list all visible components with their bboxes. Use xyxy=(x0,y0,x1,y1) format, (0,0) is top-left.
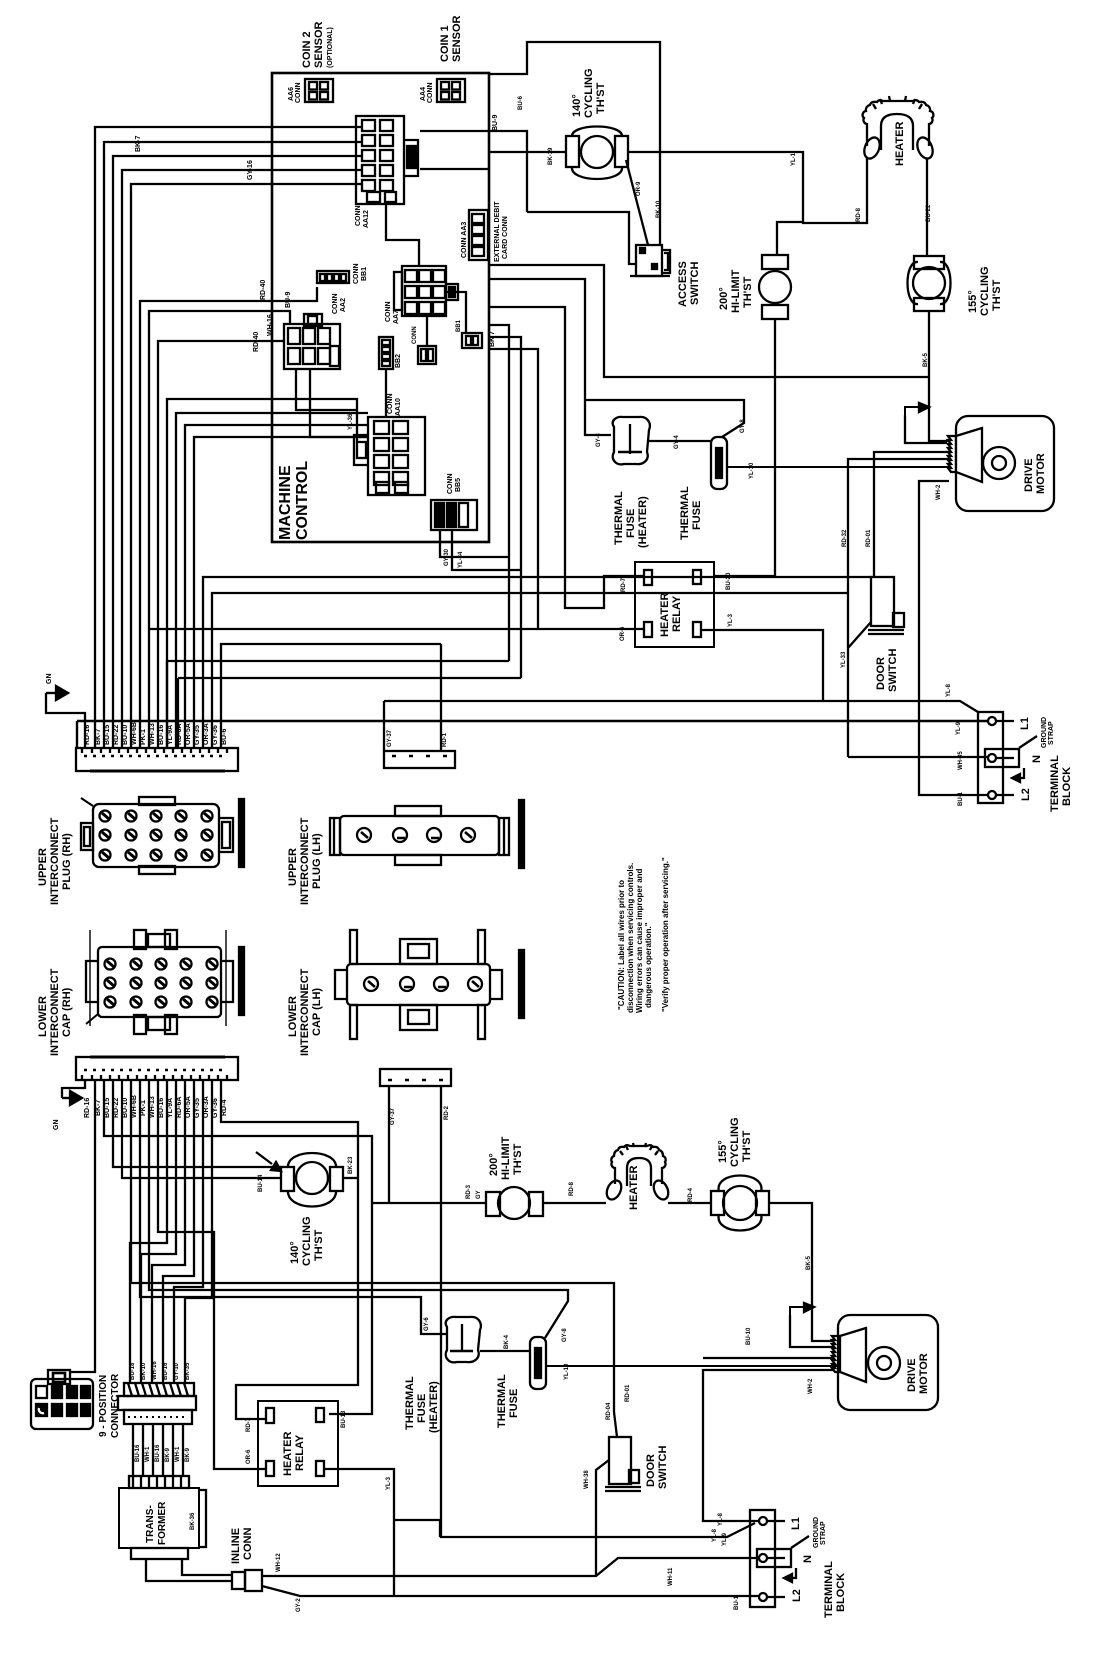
svg-text:THERMAL: THERMAL xyxy=(404,1376,416,1430)
svg-text:YL-8: YL-8 xyxy=(946,683,952,697)
wire staircase 6 xyxy=(185,1080,212,1383)
door switch (top) xyxy=(868,577,904,692)
svg-text:CONNECTOR: CONNECTOR xyxy=(110,1373,121,1438)
svg-text:BK 7: BK 7 xyxy=(489,331,496,347)
wire harness to CONN AA12 pin row 2 xyxy=(104,142,362,748)
svg-text:BB2: BB2 xyxy=(395,354,402,368)
svg-text:RD-32: RD-32 xyxy=(842,529,848,547)
wire harness to CONN AA10 pin 4 xyxy=(194,437,368,748)
svg-text:SWITCH: SWITCH xyxy=(657,1446,669,1489)
svg-text:CONN: CONN xyxy=(385,301,392,322)
svg-text:YL-34: YL-34 xyxy=(458,551,464,568)
svg-text:YL-33: YL-33 xyxy=(841,651,847,668)
machine control U1 box xyxy=(272,73,489,542)
svg-text:YL-3: YL-3 xyxy=(386,1476,392,1490)
svg-text:OR-6: OR-6 xyxy=(620,626,626,641)
wire to pill top diagonal GY-8 xyxy=(149,1080,568,1338)
lower interconnect cap (LH) xyxy=(287,930,524,1056)
wire AA7 flap to BB4 xyxy=(446,292,466,333)
svg-text:GY-16: GY-16 xyxy=(247,160,254,180)
svg-text:TRANS-: TRANS- xyxy=(145,1505,156,1543)
connector CONN AA6 xyxy=(288,79,333,103)
ground GN arrow + wire (bottom) xyxy=(53,1080,85,1130)
svg-text:YL-8: YL-8 xyxy=(712,1528,718,1542)
wire box exit to relay coil xyxy=(489,349,538,629)
svg-text:CAP (RH): CAP (RH) xyxy=(61,987,73,1037)
svg-text:DOOR: DOOR xyxy=(645,1454,657,1487)
BB5 exits xyxy=(440,530,521,570)
connector CONN AA2 xyxy=(284,293,347,369)
svg-text:RD-01: RD-01 xyxy=(625,1384,631,1402)
GY-8 wire pill top loop xyxy=(585,400,744,437)
svg-text:BK-23: BK-23 xyxy=(348,1156,354,1174)
svg-text:CYCLING: CYCLING xyxy=(729,1118,741,1168)
svg-text:WH-2: WH-2 xyxy=(936,484,942,500)
wire box exit to heater relay TL xyxy=(489,307,644,608)
svg-text:GROUND: GROUND xyxy=(813,1517,820,1548)
wire staircase 3 xyxy=(152,1080,185,1383)
fuse link wire xyxy=(649,440,711,442)
svg-text:RD-7: RD-7 xyxy=(621,577,627,592)
svg-text:TH'ST: TH'ST xyxy=(991,279,1003,311)
wire to RD-1 of 4-pin strip xyxy=(221,644,441,748)
heater right leg to 155thst xyxy=(926,158,928,256)
svg-text:BK-19: BK-19 xyxy=(548,147,554,165)
155thst to motor comb xyxy=(929,311,949,441)
svg-text:LOWER: LOWER xyxy=(37,996,49,1037)
wire labels xyxy=(253,292,292,352)
svg-text:BLOCK: BLOCK xyxy=(835,1573,847,1612)
svg-text:TERMINAL: TERMINAL xyxy=(823,1561,835,1618)
thermostat 200 hi-limit (top) xyxy=(718,255,791,319)
svg-text:BK-5: BK-5 xyxy=(923,352,929,367)
svg-text:CONN: CONN xyxy=(355,205,362,226)
svg-text:RD-8: RD-8 xyxy=(856,207,862,222)
4-pin strip (upper) xyxy=(384,729,455,768)
svg-text:UPPER: UPPER xyxy=(287,848,299,886)
wire bus y661 xyxy=(167,661,509,748)
svg-text:GN: GN xyxy=(46,674,53,685)
thermal fuse (heater) (bottom) xyxy=(404,1317,481,1433)
svg-text:THERMAL: THERMAL xyxy=(496,1374,508,1428)
ground GN arrow + wire xyxy=(46,674,85,749)
svg-text:AA7: AA7 xyxy=(393,310,400,324)
upper interconnect plug (LH) xyxy=(287,800,524,905)
svg-text:RD-7: RD-7 xyxy=(246,1417,252,1432)
drive motor M2 (bottom) xyxy=(832,1315,938,1410)
svg-text:disconnection when servicing c: disconnection when servicing controls. xyxy=(626,863,635,1013)
svg-text:140°: 140° xyxy=(289,1241,301,1264)
loop wire to heater relay TL xyxy=(221,1080,358,1419)
200thst right to heater left terminal xyxy=(543,1202,606,1204)
svg-text:RELAY: RELAY xyxy=(671,595,683,632)
long wire to door switch xyxy=(203,577,871,748)
svg-text:INLINE: INLINE xyxy=(230,1528,242,1564)
wire box exit to bus y678 xyxy=(489,337,521,678)
wires to 140thst (bottom) xyxy=(113,1080,281,1167)
svg-text:BB1: BB1 xyxy=(456,319,462,332)
wire 140thst left xyxy=(489,151,566,153)
svg-text:200°: 200° xyxy=(718,287,730,310)
svg-text:STRAP: STRAP xyxy=(820,1521,827,1545)
thermal fuse heater left wire xyxy=(489,279,611,435)
svg-text:CONN: CONN xyxy=(447,473,454,494)
svg-text:WH-16: WH-16 xyxy=(267,314,274,336)
thermostat 155 cycling (top) xyxy=(908,256,1004,316)
svg-text:BK-9: BK-9 xyxy=(165,1447,171,1462)
transformer to inline conn xyxy=(146,1559,232,1581)
svg-text:155°: 155° xyxy=(717,1140,729,1163)
svg-text:200°: 200° xyxy=(488,1153,500,1176)
svg-text:HEATER: HEATER xyxy=(282,1432,294,1476)
thermostat 140 cycling (bottom) xyxy=(281,1153,343,1266)
svg-text:N: N xyxy=(802,1555,814,1563)
heater relay K2 (bottom) xyxy=(258,1401,338,1486)
thermostat 140 cycling (top) xyxy=(566,69,628,180)
svg-text:AA12: AA12 xyxy=(363,210,370,228)
svg-text:dangerous operation.": dangerous operation." xyxy=(644,922,653,1008)
svg-text:AA6: AA6 xyxy=(288,87,295,101)
thermostat 155 cycling (bottom) xyxy=(711,1118,769,1231)
svg-text:RD-01: RD-01 xyxy=(866,529,872,547)
svg-text:SWITCH: SWITCH xyxy=(689,262,701,305)
svg-text:YL-10: YL-10 xyxy=(749,462,755,479)
svg-text:(HEATER): (HEATER) xyxy=(428,1381,440,1433)
svg-text:WH-12: WH-12 xyxy=(276,1553,282,1572)
heater relay K1 (top) xyxy=(635,562,714,647)
wire GY-37 vertical + L1 feed line xyxy=(383,701,385,751)
wire to 200 chain / relay TR vertical xyxy=(104,1080,372,1414)
svg-text:FUSE: FUSE xyxy=(508,1389,520,1418)
svg-text:GY-4: GY-4 xyxy=(674,435,680,449)
svg-text:CONN: CONN xyxy=(332,293,339,314)
svg-text:BU-20: BU-20 xyxy=(726,572,732,590)
svg-text:INTERCONNECT: INTERCONNECT xyxy=(49,968,61,1056)
svg-text:WH-38: WH-38 xyxy=(584,1470,590,1489)
wire box exit to bus y661 xyxy=(489,325,509,661)
upper interconnect plug (RH) xyxy=(37,797,244,905)
ground symbol near drive motor (top) xyxy=(905,403,947,443)
svg-text:GY-37: GY-37 xyxy=(387,729,393,747)
svg-text:YL-8: YL-8 xyxy=(718,1512,724,1526)
svg-text:HEATER: HEATER xyxy=(894,122,906,166)
connector CONN AA4 xyxy=(420,79,465,103)
svg-text:EXTERNAL DEBIT: EXTERNAL DEBIT xyxy=(494,201,501,262)
svg-text:BU-13: BU-13 xyxy=(341,1410,347,1428)
svg-text:BB1: BB1 xyxy=(361,267,368,281)
wire bus y678 xyxy=(178,678,521,748)
wire to thermal fuse (heater) bottom xyxy=(140,1080,447,1334)
svg-text:INTERCONNECT: INTERCONNECT xyxy=(299,817,311,905)
inline conn to N xyxy=(262,1558,759,1576)
svg-text:WH-11: WH-11 xyxy=(668,1567,674,1586)
svg-text:TERMINAL: TERMINAL xyxy=(1049,755,1061,812)
svg-text:BU-6: BU-6 xyxy=(518,95,524,110)
thermal fuse (top) xyxy=(679,437,727,540)
svg-text:COIN 2: COIN 2 xyxy=(301,31,313,68)
long wire to door switch vertical xyxy=(131,1080,617,1437)
wire to 9-position connector xyxy=(70,1080,95,1372)
svg-text:CONN: CONN xyxy=(427,82,434,103)
svg-text:GY-6: GY-6 xyxy=(424,1317,430,1331)
9-position connector xyxy=(31,1370,121,1438)
svg-text:STRAP: STRAP xyxy=(1048,721,1055,745)
svg-text:GY-8: GY-8 xyxy=(562,1328,568,1342)
connector CONN BB2 xyxy=(379,337,402,369)
svg-text:TH'ST: TH'ST xyxy=(512,1143,524,1175)
inline connector xyxy=(230,1528,262,1591)
stacked connector to transformer wires xyxy=(133,1424,183,1476)
thermostat 200 hi-limit (bottom) xyxy=(486,1136,543,1219)
wire labels left of AA12 xyxy=(135,115,499,300)
svg-text:YL-1: YL-1 xyxy=(791,152,797,166)
long wire to motor RD-32 junction xyxy=(212,593,848,748)
interconnect terminal strip (upper) xyxy=(76,748,238,771)
svg-text:HEATER: HEATER xyxy=(659,593,671,637)
svg-text:BU-9: BU-9 xyxy=(492,115,499,131)
svg-text:THERMAL: THERMAL xyxy=(679,486,691,540)
svg-text:MOTOR: MOTOR xyxy=(1035,453,1047,494)
svg-text:BU-16: BU-16 xyxy=(155,1444,161,1462)
svg-text:FORMER: FORMER xyxy=(157,1501,168,1545)
heater relay BR down to L2 line xyxy=(324,1469,394,1596)
svg-text:YL-9: YL-9 xyxy=(722,1532,728,1546)
svg-text:CONTROL: CONTROL xyxy=(294,461,311,540)
connector CONN AA7 xyxy=(385,266,458,324)
svg-text:CARD CONN: CARD CONN xyxy=(502,216,509,259)
svg-text:PLUG (LH): PLUG (LH) xyxy=(311,833,323,889)
svg-text:AA4: AA4 xyxy=(420,87,427,101)
svg-text:RD-40: RD-40 xyxy=(260,280,267,300)
svg-text:BU-14: BU-14 xyxy=(258,1174,264,1192)
wire transformer secondary 2 xyxy=(182,1559,232,1575)
svg-text:9 - POSITION: 9 - POSITION xyxy=(98,1375,109,1437)
svg-text:BU-1: BU-1 xyxy=(958,791,964,806)
wire box to motor junction xyxy=(489,265,929,377)
wire RD-32 vertical to N xyxy=(848,756,988,758)
svg-text:MOTOR: MOTOR xyxy=(918,1353,930,1394)
svg-text:CAP (LH): CAP (LH) xyxy=(311,988,323,1036)
svg-text:N: N xyxy=(1031,755,1043,763)
machine control to access switch xyxy=(527,212,636,264)
155thst right to motor comb xyxy=(769,1203,833,1341)
svg-text:YL-9: YL-9 xyxy=(956,721,962,735)
wire harness to CONN BB1 xyxy=(140,287,317,748)
connector CONN AA10 xyxy=(354,393,425,495)
svg-text:CONN AA3: CONN AA3 xyxy=(461,222,468,258)
svg-text:CYCLING: CYCLING xyxy=(301,1217,313,1267)
heater relay BR wire right xyxy=(701,630,823,701)
svg-text:RD-4: RD-4 xyxy=(688,1187,694,1202)
svg-text:YL-10: YL-10 xyxy=(564,1363,570,1380)
svg-text:HEATER: HEATER xyxy=(628,1166,640,1210)
wire RD-1 vertical xyxy=(440,644,442,751)
wire AA7 to BB3 xyxy=(426,316,428,346)
heater element (bottom) xyxy=(604,1143,671,1210)
wire harness to CONN AA10 pin 3 xyxy=(185,425,368,748)
wire harness to CONN AA12 pin row 4 xyxy=(122,170,362,748)
connector CONN BB5 xyxy=(431,473,477,530)
svg-text:L2: L2 xyxy=(1020,788,1032,801)
svg-text:RD-1: RD-1 xyxy=(442,732,448,747)
svg-text:RELAY: RELAY xyxy=(294,1434,306,1471)
wire AA12 to bus BU-9 xyxy=(420,131,527,212)
svg-text:TH'ST: TH'ST xyxy=(741,1130,753,1162)
terminal block (top) xyxy=(978,712,1073,812)
200thst down to heater relay xyxy=(714,319,775,576)
thermal fuse (heater) (top) xyxy=(613,417,650,548)
svg-text:OR-6: OR-6 xyxy=(246,1449,252,1464)
strip wire labels (upper) xyxy=(84,722,228,745)
connector BB4 small xyxy=(456,319,496,348)
heater right to 155thst xyxy=(668,1202,711,1204)
motor comb to L2 xyxy=(919,481,988,795)
svg-text:CONN: CONN xyxy=(412,326,418,344)
140thst right stub xyxy=(343,1177,358,1179)
connector CONN BB1 xyxy=(317,263,368,284)
svg-text:BU-9: BU-9 xyxy=(285,292,292,308)
svg-text:BLOCK: BLOCK xyxy=(1061,767,1073,806)
svg-text:CONN: CONN xyxy=(295,82,302,103)
svg-text:HI-LIMIT: HI-LIMIT xyxy=(500,1136,512,1180)
svg-text:SENSOR: SENSOR xyxy=(313,21,325,68)
svg-text:BK-4: BK-4 xyxy=(504,1334,510,1349)
thermal fuse (bottom) xyxy=(496,1337,546,1428)
wire 140thst right to heater RD-8 xyxy=(628,152,867,223)
wire harness to CONN AA12 pin row 5 xyxy=(131,184,362,748)
wire harness to CONN AA2 top xyxy=(149,311,290,748)
wire staircase 4 xyxy=(163,1080,194,1383)
terminal block (bottom) xyxy=(750,1510,847,1618)
svg-text:CYCLING: CYCLING xyxy=(583,69,595,119)
svg-text:GY: GY xyxy=(476,1190,482,1199)
svg-text:MACHINE: MACHINE xyxy=(277,465,294,540)
svg-text:GROUND: GROUND xyxy=(1041,717,1048,748)
inline conn to L2 xyxy=(262,1586,759,1596)
svg-text:WH-1: WH-1 xyxy=(175,1446,181,1462)
door switch to N xyxy=(596,1460,609,1576)
svg-text:TH'ST: TH'ST xyxy=(313,1229,325,1261)
svg-text:Wiring errors can cause improp: Wiring errors can cause improper and xyxy=(635,868,644,1013)
wire harness to CONN AA12 pin row 3 xyxy=(113,156,362,748)
svg-text:PLUG (RH): PLUG (RH) xyxy=(61,833,73,890)
wire branch to 200thst top xyxy=(777,222,803,256)
svg-text:HI-LIMIT: HI-LIMIT xyxy=(730,269,742,313)
svg-text:FUSE: FUSE xyxy=(691,501,703,530)
label COIN 2 SENSOR (OPTIONAL) xyxy=(301,21,334,68)
connector BB3 small xyxy=(412,326,436,364)
wire chain to 200thst left xyxy=(372,1202,486,1204)
svg-text:GN: GN xyxy=(53,1120,60,1131)
svg-text:CONN: CONN xyxy=(387,393,394,414)
diagonal 140thst to access switch xyxy=(626,160,648,245)
svg-text:BU-10: BU-10 xyxy=(746,1327,752,1345)
svg-text:OR-9: OR-9 xyxy=(636,181,642,196)
RD-2 wire to L1 xyxy=(441,1086,755,1537)
svg-text:155°: 155° xyxy=(967,290,979,313)
connector CONN AA12 xyxy=(355,116,418,228)
staircase wires into stacked connector xyxy=(130,1080,167,1383)
top loop to access switch xyxy=(488,42,660,245)
wire AA12 right stub xyxy=(420,168,489,170)
svg-text:GY-37: GY-37 xyxy=(390,1107,396,1125)
svg-text:AA10: AA10 xyxy=(395,398,402,416)
transformer T1 xyxy=(119,1476,206,1559)
svg-text:UPPER: UPPER xyxy=(37,848,49,886)
GY-37 wire into 200 chain xyxy=(388,1086,390,1203)
interconnect terminal strip (lower) xyxy=(76,1057,238,1080)
svg-text:LOWER: LOWER xyxy=(287,996,299,1037)
caution note text xyxy=(617,857,670,1013)
svg-text:YL-3: YL-3 xyxy=(728,613,734,627)
strip wire labels (lower) xyxy=(84,1095,228,1118)
svg-text:INTERCONNECT: INTERCONNECT xyxy=(299,968,311,1056)
stacked connector pair xyxy=(118,1361,196,1424)
wire relay BR branch to L1 feed xyxy=(394,1520,440,1537)
svg-text:SENSOR: SENSOR xyxy=(451,15,463,62)
wire to heater relay BL xyxy=(158,1080,266,1469)
wire staircase 5 xyxy=(174,1080,203,1383)
dark L1 line xyxy=(77,721,988,748)
svg-text:BK-7: BK-7 xyxy=(135,136,142,152)
door switch (bottom) xyxy=(605,1437,669,1491)
svg-text:GY-6: GY-6 xyxy=(596,433,602,447)
svg-text:"Verify proper operation after: "Verify proper operation after servicing… xyxy=(661,857,670,1012)
access switch S1 xyxy=(630,245,701,307)
svg-text:DRIVE: DRIVE xyxy=(1023,458,1035,492)
svg-text:140°: 140° xyxy=(571,94,583,117)
svg-text:FUSE: FUSE xyxy=(416,1394,428,1423)
wire harness to CONN AA10 flap xyxy=(167,399,357,748)
svg-text:AA2: AA2 xyxy=(340,298,347,312)
svg-text:RD-2: RD-2 xyxy=(444,1105,450,1120)
svg-text:CONN: CONN xyxy=(242,1528,254,1560)
svg-text:THERMAL: THERMAL xyxy=(613,491,625,545)
pill to motor comb long wire xyxy=(727,466,949,468)
wire AA2 to AA10 xyxy=(310,369,368,437)
svg-text:BB5: BB5 xyxy=(455,478,462,492)
svg-text:YL-36: YL-36 xyxy=(348,413,354,430)
svg-text:BK-5: BK-5 xyxy=(806,1255,812,1270)
wire harness to CONN AA12 pin row 1 xyxy=(95,127,362,748)
svg-text:BU-1: BU-1 xyxy=(734,1595,740,1610)
svg-text:DRIVE: DRIVE xyxy=(906,1358,918,1392)
lower interconnect cap (RH) xyxy=(37,930,244,1056)
svg-text:BK-10: BK-10 xyxy=(656,200,662,218)
svg-text:RD-04: RD-04 xyxy=(606,1402,612,1420)
pill to motor wire (bottom) xyxy=(546,1365,838,1367)
svg-text:ACCESS: ACCESS xyxy=(677,261,689,307)
svg-text:CONN: CONN xyxy=(353,263,360,284)
svg-text:RD-8: RD-8 xyxy=(569,1181,575,1196)
motor to door switch wires RD-32 RD-01 xyxy=(848,459,950,757)
heater element (top) xyxy=(861,96,935,166)
svg-text:GY-30: GY-30 xyxy=(444,548,450,566)
svg-text:RD-3: RD-3 xyxy=(466,1184,472,1199)
svg-text:GY-8: GY-8 xyxy=(740,419,746,433)
svg-text:TH'ST: TH'ST xyxy=(742,276,754,308)
svg-text:L2: L2 xyxy=(791,1589,803,1602)
connector CONN AA3 / external debit card conn xyxy=(461,201,509,262)
thermal fuse link (bottom) xyxy=(480,1350,530,1352)
svg-text:SWITCH: SWITCH xyxy=(887,649,899,692)
label COIN 1 SENSOR xyxy=(439,15,463,62)
svg-text:FUSE: FUSE xyxy=(625,509,637,538)
svg-text:L1: L1 xyxy=(790,1517,802,1530)
svg-text:COIN 1: COIN 1 xyxy=(439,25,451,62)
svg-text:WH-2: WH-2 xyxy=(808,1378,814,1394)
wire staircase 2 xyxy=(141,1080,176,1383)
